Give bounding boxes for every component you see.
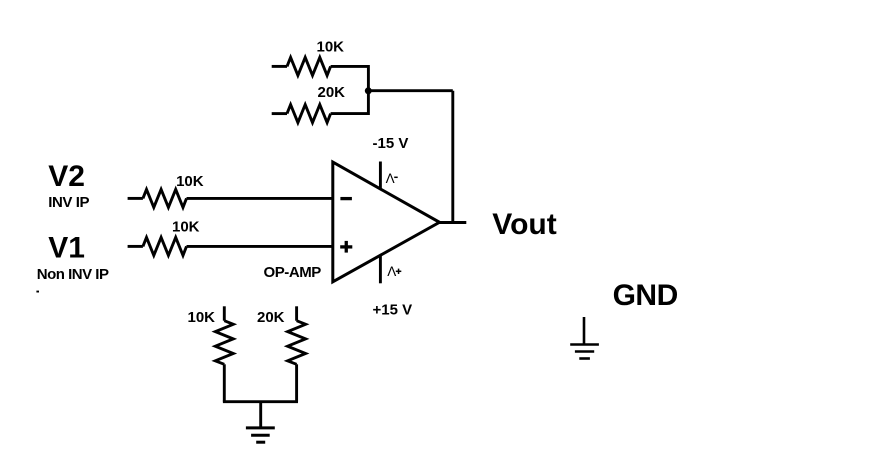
svg-text:10K: 10K xyxy=(317,39,345,56)
resistor R3 10K (vertical, to ground) xyxy=(215,306,233,401)
svg-text:-15 V: -15 V xyxy=(373,135,409,152)
svg-text:20K: 20K xyxy=(318,84,346,101)
wire: drop to ground xyxy=(259,402,262,428)
op-amp non-inverting input marker (plus) xyxy=(340,241,352,253)
wire: vertical joining Rf1 and Rf2 right ends xyxy=(367,65,370,115)
svg-text:10K: 10K xyxy=(176,173,204,190)
resistor Rf2 20K (second feedback) xyxy=(272,105,369,123)
node junction dot xyxy=(365,87,372,94)
svg-text:V2: V2 xyxy=(48,160,85,193)
resistor R1 10K (inverting input) xyxy=(128,189,334,207)
wire: vertical feedback drop to output xyxy=(451,91,454,222)
resistor R4 20K (vertical, to ground) xyxy=(288,306,306,401)
op-amp U1 triangle xyxy=(333,162,440,282)
svg-text:Non INV IP: Non INV IP xyxy=(37,266,109,283)
resistor R2 10K (non-inverting input) xyxy=(128,237,334,255)
ground (GND symbol) xyxy=(570,317,599,359)
stray period mark xyxy=(36,291,39,293)
svg-text:Λ: Λ xyxy=(386,171,395,186)
wire: output stub xyxy=(440,221,467,224)
svg-text:+15 V: +15 V xyxy=(373,302,413,319)
ground (bottom) xyxy=(246,428,275,442)
svg-text:20K: 20K xyxy=(257,309,285,326)
pin: V- power pin (top) xyxy=(379,162,382,190)
svg-text:INV IP: INV IP xyxy=(48,194,89,211)
svg-text:10K: 10K xyxy=(188,309,216,326)
op-amp inverting input marker (minus) xyxy=(340,197,352,200)
resistor Rf1 10K (top feedback) xyxy=(272,57,369,75)
svg-text:Λ: Λ xyxy=(387,264,396,279)
svg-text:GND: GND xyxy=(613,279,678,312)
svg-text:Vout: Vout xyxy=(492,208,556,241)
svg-text:OP-AMP: OP-AMP xyxy=(264,264,322,281)
svg-text:V1: V1 xyxy=(48,231,85,264)
svg-text:10K: 10K xyxy=(172,218,200,235)
pin: V+ power pin (bottom) xyxy=(379,256,382,283)
wire: bottom connector between R3 and R4 xyxy=(223,400,298,403)
wire: junction to top of output drop xyxy=(368,89,452,92)
